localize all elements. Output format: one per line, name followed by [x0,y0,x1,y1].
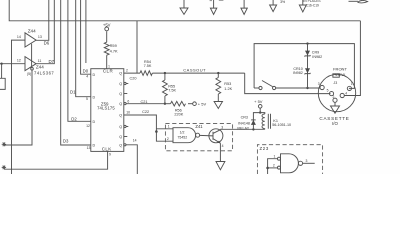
svg-text:4.7K: 4.7K [110,48,118,53]
relay core bars [267,114,269,129]
relay K1 coil [262,114,265,129]
svg-text:2: 2 [167,137,169,141]
op-amp U 1/2 75452 gate [173,128,196,143]
svg-text:K1: K1 [273,119,278,123]
wire Q0 pin2 C20 line to R54 [124,72,140,74]
svg-text:13: 13 [87,146,91,150]
resistor R53 1.2K [216,78,221,94]
resistor R55 7.5K [163,80,168,96]
asterisk mark left stub lower [2,166,6,170]
svg-text:1: 1 [168,125,170,129]
svg-text:74LS175: 74LS175 [97,106,115,111]
wire gate output to transistor base [200,134,213,137]
svg-text:Z44: Z44 [36,65,44,70]
node junction gate input [155,130,158,133]
svg-text:2: 2 [273,163,275,167]
wire R53 top lead [217,73,219,77]
svg-text:IN982: IN982 [293,71,303,75]
gate input bubble 1 [278,157,281,160]
wire pin14 down to bottom edge [126,145,137,174]
svg-text:+ 5V: + 5V [198,101,207,106]
svg-text:CASSOUT: CASSOUT [183,67,206,72]
resistor R54 7.5K [140,71,152,76]
wire C21 line pin6 to R55 bottom [126,103,165,105]
wire riser from top line to R54 node [136,21,138,73]
svg-text:D: D [93,144,96,148]
wire data bus vertical D0 [81,0,91,74]
svg-text:4: 4 [86,74,88,78]
label fragment above arrow 2 [210,0,212,1]
svg-text:1/2: 1/2 [180,131,185,135]
svg-text:2: 2 [332,95,334,99]
wire DIN pin2 to cassette arrow [334,102,336,106]
svg-text:D: D [93,73,96,77]
wire R53 bottom lead [217,94,219,102]
svg-text:D3: D3 [63,139,69,144]
svg-text:3%: 3% [280,0,285,4]
svg-text:9: 9 [109,153,111,157]
svg-text:C22: C22 [142,110,149,114]
svg-text:IN4148: IN4148 [238,121,250,125]
wire gate inputs [268,159,278,174]
IC pin14 bubble [124,144,126,146]
svg-text:3: 3 [306,159,308,163]
IC right side stub pin11 bubble [124,125,126,127]
svg-text:2: 2 [126,69,128,73]
wire R55 leads [164,73,166,80]
diode CR10 IN982 zener [305,68,311,74]
svg-text:7.5K: 7.5K [168,89,176,93]
svg-text:12: 12 [86,124,90,128]
wire CASSOUT line [152,72,244,74]
wire enable line between buffers [31,44,33,67]
svg-text:D6: D6 [44,40,50,45]
IC right side stub pin15 [124,136,128,138]
ground arrow cassette IO [331,106,340,113]
svg-text:I/O: I/O [332,121,338,126]
svg-text:1: 1 [108,65,110,69]
gate Z23 NOR [281,154,299,173]
svg-text:13: 13 [38,35,42,39]
gate output bubble [298,161,302,165]
wire relay bottom line [220,128,265,130]
svg-text:D: D [93,95,96,99]
svg-text:(5): (5) [27,72,31,76]
IC pin6 bubble [124,103,126,105]
svg-text:10: 10 [126,110,130,114]
wire +5V down to coil junction [259,108,261,113]
wire data bus vertical D3 [61,0,91,145]
svg-text:J3: J3 [333,81,337,85]
svg-text:7.5K: 7.5K [144,64,152,68]
wire R59 to CLR pin1 [106,55,108,68]
svg-text:1: 1 [351,82,353,86]
svg-text:IN982: IN982 [312,55,322,59]
gate output bubble [196,133,200,137]
svg-text:14: 14 [133,138,137,142]
off-page arrow 1 [180,0,188,14]
svg-text:56-1051-10: 56-1051-10 [272,123,291,127]
svg-text:75452: 75452 [177,135,187,139]
wire top bus line [9,0,360,21]
svg-text:+ 5V: + 5V [254,99,263,104]
off-page arrow 5 [299,0,306,12]
dashed box Z23 [257,145,322,174]
svg-text:11: 11 [38,59,42,63]
wire switch to CR10 node and DIN pin3 [276,87,320,89]
wire IC pin10 C22 to Z41 inputs [124,115,173,141]
node junction R55 top [164,72,166,74]
wire branch down from Z44b input junction [1,64,3,79]
node junction CR9 top [306,42,308,44]
svg-text:Q: Q [119,82,122,86]
svg-text:VIEW: VIEW [335,72,345,77]
svg-text:D1: D1 [70,90,76,95]
svg-text:220K: 220K [174,113,183,117]
off-page arrow 4 [270,0,277,12]
resistor R56 220K [171,101,186,106]
node junction on Z44b input [0,63,2,65]
wire R55 bottom lead [164,96,166,104]
power +5V terminal right of R56 [193,102,197,106]
svg-text:4: 4 [345,91,347,95]
svg-text:CLR: CLR [103,69,114,74]
wire data bus vertical extra [85,0,87,63]
buffer Z44 D7 (pins 2,11) [17,57,44,71]
contact box top edge [254,44,354,89]
svg-text:D: D [93,120,96,124]
IC Z59 74LS175 body [91,69,124,152]
node junction CR3 bottom [252,128,254,130]
node junction relay top [259,111,261,113]
svg-text:C20: C20 [130,76,137,80]
svg-text:CR10: CR10 [293,67,302,71]
ground arrow under transistor [216,162,225,170]
ground arrow under R53 [214,102,222,109]
wire CR3 branch [253,113,260,130]
wire data bus vertical D1 [76,0,91,97]
transistor Q1 [209,126,224,148]
wire coil bottom lead [264,128,266,131]
off-page arrow 2 [210,0,216,14]
svg-text:Q: Q [119,125,122,129]
svg-text:Q: Q [119,135,122,139]
wire enable down to asterisk stub [4,70,32,145]
svg-text:3: 3 [318,82,320,86]
svg-text:C21: C21 [141,100,148,104]
svg-text:Q: Q [119,72,122,76]
svg-text:R59: R59 [110,43,117,48]
gate input bubble 2 [278,166,281,169]
buffer enable bubble pin 5 [31,68,34,71]
off-page arrow top right [349,0,368,2]
connector stub box at left edge [0,78,5,89]
connector J3 DIN front view [318,67,356,112]
svg-text:1: 1 [274,155,276,159]
wire input to buffer Z44a from below [12,40,26,174]
svg-text:Z41: Z41 [195,124,203,129]
wire DIN pin4 to top line [344,21,360,96]
off-page arrow 3 [241,0,247,14]
relay contact switch K1 [254,81,276,90]
wire data bus vertical D6 [36,0,49,40]
dashed box Z41 [165,124,232,151]
node junction R53 top [217,72,219,74]
svg-text:6: 6 [127,99,129,103]
svg-text:Q: Q [119,143,122,147]
wire emitter down to ground [219,143,221,161]
wire CASSOUT drop to DIN pin5 route [245,73,331,94]
wire CLK pin9 down-left to asterisk stub [4,151,108,169]
svg-text:Z23: Z23 [259,146,269,151]
svg-text:R53: R53 [224,82,231,86]
wire +5V to R59 [106,31,108,42]
svg-text:CR9: CR9 [312,50,319,54]
svg-text:1.2K: 1.2K [224,87,232,91]
svg-text:D7: D7 [48,59,54,64]
asterisk mark left stub upper [2,142,6,146]
svg-text:CR3: CR3 [241,115,248,119]
svg-text:Z44: Z44 [28,28,36,33]
wire coil top lead [260,113,265,114]
svg-text:4: 4 [222,144,224,148]
svg-text:C16-C19: C16-C19 [306,3,319,7]
wire data bus vertical D7 [36,0,54,64]
svg-text:CLK: CLK [102,147,112,152]
node junction gate pin2 [266,167,269,170]
wire input to buffer Z44b from left edge [0,63,25,65]
node junction CR10 bottom [306,87,308,89]
svg-text:5: 5 [327,88,329,92]
wire gate output pin3 [303,162,315,164]
wire CR9/CR10 string [307,44,309,88]
svg-text:5: 5 [86,97,88,101]
svg-text:14: 14 [17,35,21,39]
diode CR3 1N4148 [251,120,256,125]
svg-text:D0: D0 [83,69,89,74]
IC right side stub pin7 [124,93,128,95]
buffer Z44 D6 (pins 4,3) [17,28,42,47]
svg-text:RELAY: RELAY [237,127,249,131]
svg-text:12: 12 [17,58,21,62]
diode CR9 IN982 zener [305,51,311,57]
svg-text:Q: Q [119,92,122,96]
wire gate pin1 stub [156,128,173,130]
svg-text:Q: Q [119,102,122,106]
svg-text:D2: D2 [71,116,77,121]
IC right side stub pin3 bubble [124,82,126,84]
wire data bus vertical D2 [68,0,91,121]
svg-text:74L532: 74L532 [284,173,298,174]
node junction R55 bottom [164,103,166,105]
svg-text:74LS367: 74LS367 [34,71,54,76]
label fragment above arrow 3 [219,0,224,2]
svg-text:Q: Q [119,114,122,118]
resistor R59 4.7K [104,42,109,55]
